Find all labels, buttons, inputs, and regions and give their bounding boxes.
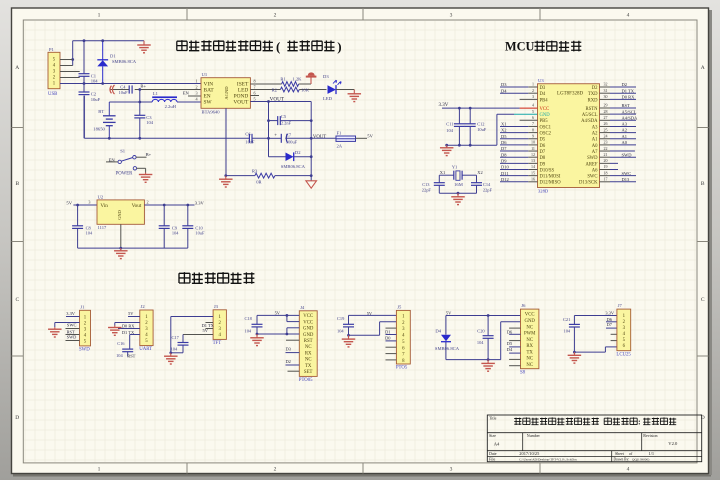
svg-text:30: 30 bbox=[604, 94, 608, 99]
svg-text:PB4: PB4 bbox=[540, 98, 549, 103]
svg-text:TFT: TFT bbox=[213, 341, 222, 346]
svg-text:Sheet: Sheet bbox=[615, 451, 625, 456]
junction main rail / VOUT left bbox=[267, 137, 270, 140]
svg-text:2.2uH: 2.2uH bbox=[165, 104, 177, 109]
svg-text:19: 19 bbox=[604, 164, 608, 169]
svg-text:2: 2 bbox=[532, 88, 534, 93]
svg-text:A0: A0 bbox=[592, 144, 598, 149]
svg-text:VCC: VCC bbox=[303, 320, 313, 325]
MCU U3 LGT8F328D bbox=[538, 78, 600, 193]
svg-text:23: 23 bbox=[604, 140, 608, 145]
svg-text:32: 32 bbox=[604, 82, 608, 87]
capacitor C2 bbox=[79, 84, 101, 139]
svg-text:104: 104 bbox=[91, 79, 99, 84]
capacitor C18 104 bbox=[245, 315, 263, 334]
svg-text:C2: C2 bbox=[91, 92, 97, 97]
wire top rail bbox=[73, 40, 144, 42]
svg-text:OSC2: OSC2 bbox=[540, 132, 552, 137]
junction P1 pin5 bbox=[71, 58, 74, 61]
svg-text:10uF: 10uF bbox=[91, 97, 101, 102]
svg-text:C: C bbox=[15, 297, 19, 303]
power port bar (red) at R1 bbox=[306, 72, 317, 84]
svg-text:D9: D9 bbox=[501, 158, 507, 163]
switch S1 lower contact (POWER) bbox=[116, 167, 146, 177]
svg-text:GND: GND bbox=[524, 319, 535, 324]
svg-text:A1: A1 bbox=[592, 138, 598, 143]
svg-text:3: 3 bbox=[450, 13, 453, 19]
svg-text:A6: A6 bbox=[592, 168, 598, 173]
svg-text:16M: 16M bbox=[454, 182, 463, 187]
svg-text:GND: GND bbox=[303, 333, 314, 338]
op-amp U1 BTA9640 charger IC bbox=[195, 72, 255, 114]
svg-text:File: File bbox=[489, 457, 495, 462]
svg-text:C:\Users\AD\Desktop\TFT-V2.0\.: C:\Users\AD\Desktop\TFT-V2.0\..SchDoc bbox=[519, 458, 577, 462]
svg-text:D5: D5 bbox=[540, 138, 546, 143]
svg-text:31: 31 bbox=[604, 88, 608, 93]
svg-text:A4: A4 bbox=[494, 441, 500, 446]
wire D4/C20 bottom rail bbox=[446, 322, 521, 360]
junction C20 top bbox=[487, 314, 490, 317]
svg-text:15: 15 bbox=[531, 170, 535, 175]
svg-text:D: D bbox=[15, 415, 19, 421]
svg-text:104: 104 bbox=[337, 328, 344, 333]
svg-text:C12: C12 bbox=[477, 122, 484, 127]
wire 3.3V rail to U3 VCC bbox=[442, 107, 520, 109]
svg-text:7: 7 bbox=[253, 85, 255, 90]
svg-text:Vout: Vout bbox=[132, 203, 142, 209]
svg-text:D6: D6 bbox=[540, 144, 546, 149]
svg-text:104: 104 bbox=[564, 328, 571, 333]
svg-text:A7: A7 bbox=[592, 150, 598, 155]
svg-text:X2: X2 bbox=[477, 170, 482, 175]
svg-text:7: 7 bbox=[532, 121, 534, 126]
svg-text:Date: Date bbox=[489, 451, 497, 456]
U3 left pin numbers bbox=[531, 82, 535, 182]
svg-text:D1: D1 bbox=[385, 329, 390, 334]
svg-text:2017/10/25: 2017/10/25 bbox=[519, 451, 540, 456]
svg-text:EN: EN bbox=[183, 90, 190, 95]
wire C18/J4 5V row bbox=[257, 315, 299, 321]
svg-text:2: 2 bbox=[274, 467, 277, 473]
ground at J2 bbox=[114, 326, 116, 328]
svg-text::: : bbox=[638, 418, 641, 427]
svg-text:3: 3 bbox=[195, 91, 197, 96]
wire J3 stubs bbox=[206, 323, 214, 329]
svg-text:GND: GND bbox=[117, 210, 122, 220]
capacitor C7 100uF polarized bbox=[269, 132, 312, 144]
junction D2 right bbox=[310, 155, 313, 158]
svg-text:D9: D9 bbox=[540, 162, 546, 167]
svg-text:RX: RX bbox=[526, 344, 533, 349]
capacitor C8 bbox=[72, 205, 93, 248]
ground at C19 bbox=[348, 335, 350, 339]
svg-text:1: 1 bbox=[195, 79, 197, 84]
svg-text:3: 3 bbox=[450, 467, 453, 473]
wire C19 to J5 row1 bbox=[349, 314, 397, 316]
wire J6 stubs and nets bbox=[509, 328, 520, 366]
svg-text:C: C bbox=[701, 297, 705, 303]
svg-text:LCU25: LCU25 bbox=[616, 352, 631, 357]
svg-text:29: 29 bbox=[604, 103, 608, 108]
junction C1 top bbox=[83, 39, 86, 42]
svg-text:11: 11 bbox=[531, 146, 535, 151]
svg-text:D2: D2 bbox=[286, 359, 291, 364]
svg-text:26: 26 bbox=[604, 121, 608, 126]
svg-text:SWC: SWC bbox=[67, 323, 77, 328]
svg-text:F1: F1 bbox=[337, 131, 343, 136]
svg-text:NC: NC bbox=[526, 357, 533, 362]
svg-text:C1: C1 bbox=[91, 73, 97, 78]
svg-text:5V: 5V bbox=[367, 134, 373, 139]
wire AGND vertical bbox=[225, 108, 227, 175]
svg-text:B: B bbox=[701, 181, 705, 187]
capacitor C20 104 bbox=[477, 316, 494, 360]
capacitor C13 22pF bbox=[422, 182, 445, 192]
svg-text:4: 4 bbox=[627, 467, 630, 473]
svg-text:1: 1 bbox=[532, 82, 534, 87]
svg-text:D5: D5 bbox=[507, 341, 513, 346]
svg-text:D10/SS: D10/SS bbox=[540, 168, 555, 173]
svg-text:6: 6 bbox=[253, 91, 255, 96]
svg-text:SWC: SWC bbox=[587, 175, 597, 180]
svg-text:X1: X1 bbox=[440, 170, 445, 175]
svg-text:2A: 2A bbox=[337, 143, 343, 148]
svg-text:1/1: 1/1 bbox=[649, 451, 655, 456]
junction C5 left bbox=[267, 119, 270, 122]
battery BT 18650 bbox=[93, 102, 115, 138]
svg-text:U2: U2 bbox=[98, 194, 104, 199]
svg-text:A0: A0 bbox=[622, 140, 628, 145]
connector J7 LCU25 bbox=[616, 303, 631, 357]
junction C9 top bbox=[163, 204, 166, 207]
svg-text:D8: D8 bbox=[501, 152, 507, 157]
svg-text:NC: NC bbox=[305, 358, 312, 363]
svg-text:A: A bbox=[701, 65, 705, 71]
svg-text:VOUT: VOUT bbox=[233, 100, 249, 106]
junction C10 top bbox=[186, 204, 189, 207]
svg-text:D7: D7 bbox=[607, 322, 613, 327]
wire LED row bbox=[250, 89, 280, 91]
svg-text:SWD: SWD bbox=[67, 335, 77, 340]
svg-text:A5/SCL: A5/SCL bbox=[622, 109, 637, 114]
svg-text:A2: A2 bbox=[592, 132, 598, 137]
switch S1 bbox=[106, 149, 147, 164]
title block main title (CJK) bbox=[514, 417, 676, 426]
wire U2 GND pin bbox=[120, 224, 122, 248]
svg-text:SW: SW bbox=[204, 100, 213, 106]
svg-text:10K: 10K bbox=[301, 88, 310, 93]
svg-text:1: 1 bbox=[98, 467, 101, 473]
svg-text:5V: 5V bbox=[128, 311, 134, 316]
svg-text:LED: LED bbox=[323, 96, 333, 101]
capacitor C21 104 bbox=[563, 316, 580, 353]
svg-text:104: 104 bbox=[245, 328, 252, 333]
svg-text:D1 TX: D1 TX bbox=[622, 88, 635, 93]
svg-text:TXD: TXD bbox=[588, 92, 598, 97]
svg-text:C21: C21 bbox=[563, 317, 570, 322]
junction crystal ground bbox=[457, 192, 460, 195]
svg-text:A4/SDA: A4/SDA bbox=[622, 115, 639, 120]
svg-text:BT: BT bbox=[98, 109, 104, 114]
svg-text:18650: 18650 bbox=[93, 126, 105, 131]
svg-text:0R: 0R bbox=[256, 180, 262, 185]
svg-text:PTO5: PTO5 bbox=[396, 366, 408, 371]
svg-text:Y1: Y1 bbox=[452, 164, 458, 169]
svg-text:13: 13 bbox=[531, 158, 535, 163]
svg-text:SWD: SWD bbox=[587, 156, 598, 161]
junction C8 top bbox=[76, 204, 79, 207]
wire L1 row bbox=[109, 101, 152, 103]
junction C18 bottom bbox=[256, 333, 259, 336]
junction C1 bottom bbox=[83, 82, 86, 85]
junction U2 ground bbox=[119, 247, 122, 250]
svg-text:D13: D13 bbox=[622, 177, 630, 182]
svg-text:5V: 5V bbox=[446, 311, 452, 316]
wire battery node vertical bbox=[139, 90, 141, 116]
svg-text:5V: 5V bbox=[66, 200, 72, 205]
svg-text:8: 8 bbox=[253, 79, 255, 84]
capacitor C4 polarized bbox=[110, 84, 201, 95]
junction D1 top bbox=[101, 39, 104, 42]
junction D1 bottom bbox=[101, 82, 104, 85]
svg-text:C5: C5 bbox=[281, 114, 287, 119]
svg-text:J5: J5 bbox=[397, 305, 402, 310]
crystal Y1 16M bbox=[452, 164, 463, 187]
svg-text:C7: C7 bbox=[286, 132, 292, 137]
svg-text:A: A bbox=[15, 65, 19, 71]
capacitor C11 bbox=[446, 108, 465, 145]
svg-text:Title: Title bbox=[489, 416, 497, 421]
svg-text:3.3V: 3.3V bbox=[195, 200, 205, 205]
svg-text:GND: GND bbox=[540, 113, 551, 118]
svg-text:C16: C16 bbox=[117, 341, 125, 346]
svg-text:22pF: 22pF bbox=[422, 187, 432, 192]
junction VOUT node bbox=[310, 137, 313, 140]
svg-text:D8: D8 bbox=[540, 156, 546, 161]
svg-text:6: 6 bbox=[532, 115, 534, 120]
wire VIN rail P1 pin1 to U1 bbox=[60, 83, 201, 85]
svg-text:SWD: SWD bbox=[622, 152, 633, 157]
svg-text:16: 16 bbox=[531, 177, 535, 182]
wire POND stub bbox=[250, 95, 259, 97]
svg-text:PWM: PWM bbox=[524, 332, 536, 337]
ground at C21 bbox=[573, 352, 575, 355]
junction VOUT tee bbox=[267, 100, 270, 103]
svg-text:104: 104 bbox=[116, 353, 123, 358]
svg-text:A3: A3 bbox=[622, 122, 628, 127]
svg-text:NC: NC bbox=[305, 345, 312, 350]
svg-text:S8: S8 bbox=[520, 370, 526, 375]
ground at J1 bbox=[54, 327, 56, 329]
svg-text:10uF: 10uF bbox=[477, 127, 487, 132]
svg-text:SET: SET bbox=[304, 370, 313, 375]
wire J3 pin1 long bbox=[171, 317, 213, 353]
svg-text:VOUT: VOUT bbox=[270, 97, 285, 103]
wire main lower rail bbox=[84, 96, 249, 139]
ground at C18 bbox=[256, 334, 258, 338]
svg-text:QQ(139000): QQ(139000) bbox=[632, 458, 649, 462]
svg-text:RST: RST bbox=[127, 354, 135, 359]
svg-text:104: 104 bbox=[446, 128, 453, 133]
svg-text:D3: D3 bbox=[540, 86, 546, 91]
wire U2 bottom rail bbox=[78, 247, 188, 249]
svg-text:Revision: Revision bbox=[643, 433, 657, 438]
wire U3 GND return bbox=[447, 114, 538, 145]
svg-text:U3: U3 bbox=[538, 78, 544, 83]
wire J4 stubs and nets bbox=[286, 340, 300, 371]
capacitor C19 104 bbox=[337, 315, 354, 335]
svg-text:AGND: AGND bbox=[224, 86, 229, 100]
svg-text:J3: J3 bbox=[214, 304, 219, 309]
svg-text:RSTN: RSTN bbox=[586, 107, 599, 112]
junction J4 GND bbox=[286, 333, 289, 336]
svg-text:D6: D6 bbox=[507, 329, 513, 334]
svg-text:20: 20 bbox=[604, 158, 608, 163]
capacitor C12 bbox=[465, 108, 487, 145]
svg-text:RST: RST bbox=[622, 103, 631, 108]
junction C3 bottom bbox=[138, 137, 141, 140]
svg-text:C19: C19 bbox=[337, 316, 345, 321]
svg-text:8: 8 bbox=[532, 127, 534, 132]
diode D2 SMB06.8CA bbox=[269, 150, 312, 169]
svg-text:J7: J7 bbox=[618, 303, 623, 308]
regulator U2 1117 bbox=[88, 194, 148, 230]
svg-text:J2: J2 bbox=[141, 304, 146, 309]
svg-text:1: 1 bbox=[98, 13, 101, 19]
U3 right pin wires and net labels bbox=[600, 82, 639, 182]
wire EN stub bbox=[188, 95, 201, 97]
svg-text:C4: C4 bbox=[120, 84, 126, 89]
svg-text:C18: C18 bbox=[245, 316, 253, 321]
svg-text:12: 12 bbox=[531, 152, 535, 157]
svg-text:5: 5 bbox=[253, 97, 255, 102]
svg-text:TX: TX bbox=[526, 350, 533, 355]
svg-text:GND: GND bbox=[303, 327, 314, 332]
svg-text:): ) bbox=[337, 39, 341, 54]
wire J1 pin rows bbox=[55, 317, 80, 341]
junction C19 bottom bbox=[347, 334, 350, 337]
wire U2 Vout to 3.3V bbox=[144, 204, 194, 206]
fuse F1 2A bbox=[311, 131, 367, 149]
title: MCU main control section bbox=[505, 40, 581, 54]
svg-text:R1: R1 bbox=[280, 76, 286, 81]
connector J2 UART bbox=[139, 304, 153, 352]
svg-text:28: 28 bbox=[604, 109, 608, 114]
svg-text:4: 4 bbox=[627, 13, 630, 19]
svg-text:AREF: AREF bbox=[586, 162, 598, 167]
connector J3 TFT bbox=[213, 304, 227, 346]
svg-text:B+: B+ bbox=[140, 84, 146, 89]
svg-text:10: 10 bbox=[531, 140, 535, 145]
junction C20 bottom bbox=[487, 358, 490, 361]
svg-text:22: 22 bbox=[604, 146, 608, 151]
ground top-right of P1 bbox=[143, 41, 145, 45]
capacitor C5 2.2nF bbox=[269, 114, 312, 125]
svg-text:2: 2 bbox=[146, 200, 148, 205]
svg-text:U1: U1 bbox=[202, 72, 208, 77]
svg-text:D6: D6 bbox=[501, 140, 507, 145]
svg-text:D12/MISO: D12/MISO bbox=[540, 181, 562, 186]
svg-text:25: 25 bbox=[604, 127, 608, 132]
svg-text:104: 104 bbox=[146, 120, 154, 125]
svg-text:D12: D12 bbox=[501, 177, 509, 182]
svg-text:D4: D4 bbox=[507, 347, 513, 352]
ground below crystal bbox=[457, 193, 459, 197]
svg-text:1.2K: 1.2K bbox=[292, 76, 302, 81]
svg-text:A1: A1 bbox=[622, 134, 628, 139]
wire C18/J4 GND row bbox=[257, 328, 299, 334]
resistor R3 0R bbox=[226, 169, 311, 185]
svg-text:USB: USB bbox=[48, 92, 57, 97]
ground at POWER switch bbox=[145, 173, 147, 175]
diode D1 SMB06.8CA bbox=[97, 41, 137, 84]
U3 right pin numbers bbox=[604, 82, 608, 182]
svg-text:EN: EN bbox=[109, 157, 116, 162]
U3 right pin names bbox=[579, 86, 598, 186]
svg-text:D11/MOSI: D11/MOSI bbox=[540, 175, 561, 180]
svg-text:10uF: 10uF bbox=[195, 230, 205, 235]
capacitor C10 bbox=[182, 205, 205, 248]
svg-text:328D: 328D bbox=[538, 189, 549, 194]
junction J4 5V bbox=[286, 314, 289, 317]
junction C5 right bbox=[310, 119, 313, 122]
junction C11 top bbox=[458, 107, 461, 110]
wire VCC red segment bbox=[520, 107, 538, 109]
svg-text:D4: D4 bbox=[501, 88, 507, 93]
svg-text:3.3V: 3.3V bbox=[66, 311, 75, 316]
svg-text:D4: D4 bbox=[540, 92, 546, 97]
svg-text:(: ( bbox=[276, 39, 280, 54]
svg-text:3.3V: 3.3V bbox=[439, 103, 449, 108]
connector J1 SWD bbox=[79, 304, 91, 352]
ground at C20 bbox=[487, 360, 489, 364]
svg-text:3: 3 bbox=[532, 94, 534, 99]
junction C21 bottom bbox=[573, 351, 576, 354]
svg-text:Number: Number bbox=[527, 433, 541, 438]
wire C21 to J7 row1 bbox=[574, 315, 617, 317]
svg-text:18: 18 bbox=[604, 170, 608, 175]
svg-text:5: 5 bbox=[532, 109, 534, 114]
ground at MCU decoupling bbox=[446, 145, 448, 148]
svg-text:B+: B+ bbox=[146, 152, 152, 157]
crystal circuit wires bbox=[439, 175, 476, 193]
svg-text:22pF: 22pF bbox=[483, 187, 493, 192]
svg-text:D2: D2 bbox=[295, 150, 301, 155]
capacitor C14 22pF bbox=[471, 182, 492, 192]
svg-text:VCC: VCC bbox=[525, 313, 535, 318]
svg-text:D1 TX: D1 TX bbox=[122, 330, 135, 335]
wire VOUT pin5 row bbox=[250, 101, 311, 103]
inductor L1 2.2uH bbox=[152, 91, 177, 109]
svg-text:SWD: SWD bbox=[79, 348, 90, 353]
ground below U2 bbox=[120, 248, 122, 251]
svg-text:VOUT: VOUT bbox=[313, 135, 326, 140]
svg-text:J1: J1 bbox=[80, 304, 85, 309]
wire ISET row bbox=[250, 83, 281, 85]
svg-text:27: 27 bbox=[604, 115, 608, 120]
resistor R2 10K bbox=[272, 87, 327, 93]
connector J4 PTO05 bbox=[299, 305, 317, 383]
svg-text:2: 2 bbox=[195, 85, 197, 90]
svg-text:MCU: MCU bbox=[505, 40, 534, 54]
connector J5 PTO5 bbox=[396, 305, 410, 371]
svg-text:D3: D3 bbox=[323, 74, 329, 79]
svg-text:S1: S1 bbox=[120, 149, 126, 154]
svg-text:Drawn By:: Drawn By: bbox=[614, 458, 630, 462]
capacitor C9 bbox=[159, 205, 180, 248]
diode D4 SMB06.8CA bbox=[435, 329, 460, 351]
svg-text:Vin: Vin bbox=[100, 203, 108, 209]
